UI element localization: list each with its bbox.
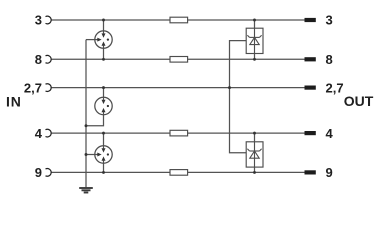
junction node line2,7/suppressor bus [228, 86, 231, 89]
wire line 4 [51, 132, 305, 134]
suppressor diode D2 [246, 142, 263, 167]
junction node line4/F3 [102, 132, 105, 135]
svg-text:IN: IN [6, 93, 22, 109]
gas discharge tube F1 [95, 31, 112, 48]
wire GDT F3 top lead [103, 133, 105, 146]
junction node line4/D2 [253, 132, 256, 135]
junction node line9/D2 [253, 171, 256, 174]
junction node line8/D1 [253, 58, 256, 61]
wire GDT F2 top lead [103, 88, 105, 98]
wire GDT F1 left lead [86, 39, 98, 41]
svg-text:3: 3 [35, 13, 42, 28]
svg-text:4: 4 [326, 126, 334, 141]
suppressor diode D1 [246, 28, 263, 53]
wire suppressor bus vertical [230, 41, 247, 153]
junction node line3/F1 [102, 19, 105, 22]
wire line 3 [51, 19, 305, 21]
junction node line2,7/F2 [102, 86, 105, 89]
wire suppressor D1 bottom lead [254, 54, 256, 60]
junction node line3/D1 [253, 19, 256, 22]
wire suppressor D2 bottom lead [254, 167, 256, 172]
svg-text:2,7: 2,7 [326, 80, 344, 95]
terminal IN 8 socket [46, 55, 52, 63]
terminal IN 2,7 socket [46, 84, 52, 92]
terminal OUT 2,7 pin [305, 86, 316, 90]
svg-text:9: 9 [35, 165, 42, 180]
wire line 9 [51, 171, 305, 173]
svg-text:4: 4 [35, 126, 43, 141]
junction node bus/F3 lead [85, 153, 88, 156]
wire suppressor D2 top lead [254, 133, 256, 142]
resistor (line 9) [170, 170, 188, 176]
svg-text:8: 8 [326, 52, 333, 67]
wire GDT F2 bottom elbow [86, 114, 104, 125]
svg-text:8: 8 [35, 52, 42, 67]
terminal IN 9 socket [46, 169, 52, 177]
terminal IN 3 socket [46, 16, 52, 24]
wire line 2,7 [51, 87, 305, 89]
resistor (line 3) [170, 17, 188, 23]
wire GDT F3 bottom lead [103, 163, 105, 173]
terminal OUT 9 pin [305, 170, 316, 174]
gas discharge tube F3 [95, 146, 112, 163]
wire GDT F1 bottom lead [103, 48, 105, 59]
terminal OUT 4 pin [305, 131, 316, 135]
wire GDT F1 top lead [103, 20, 105, 31]
svg-text:2,7: 2,7 [24, 80, 42, 95]
terminal OUT 8 pin [305, 57, 316, 61]
terminal OUT 3 pin [305, 18, 316, 22]
wire GDT F3 left lead [86, 154, 98, 156]
svg-text:OUT: OUT [344, 93, 374, 109]
svg-text:9: 9 [326, 165, 333, 180]
wire suppressor D1 top lead [254, 20, 256, 28]
resistor (line 8) [170, 57, 188, 63]
junction node bus/F2 elbow [85, 124, 88, 127]
wire line 8 [51, 58, 305, 60]
ground [79, 188, 93, 193]
wire ground bus vertical [85, 40, 87, 188]
gas discharge tube F2 [95, 97, 112, 114]
svg-text:3: 3 [326, 13, 333, 28]
junction node line8/F1 [102, 58, 105, 61]
junction node line9/F3 [102, 171, 105, 174]
terminal IN 4 socket [46, 129, 52, 137]
resistor (line 4) [170, 130, 188, 136]
